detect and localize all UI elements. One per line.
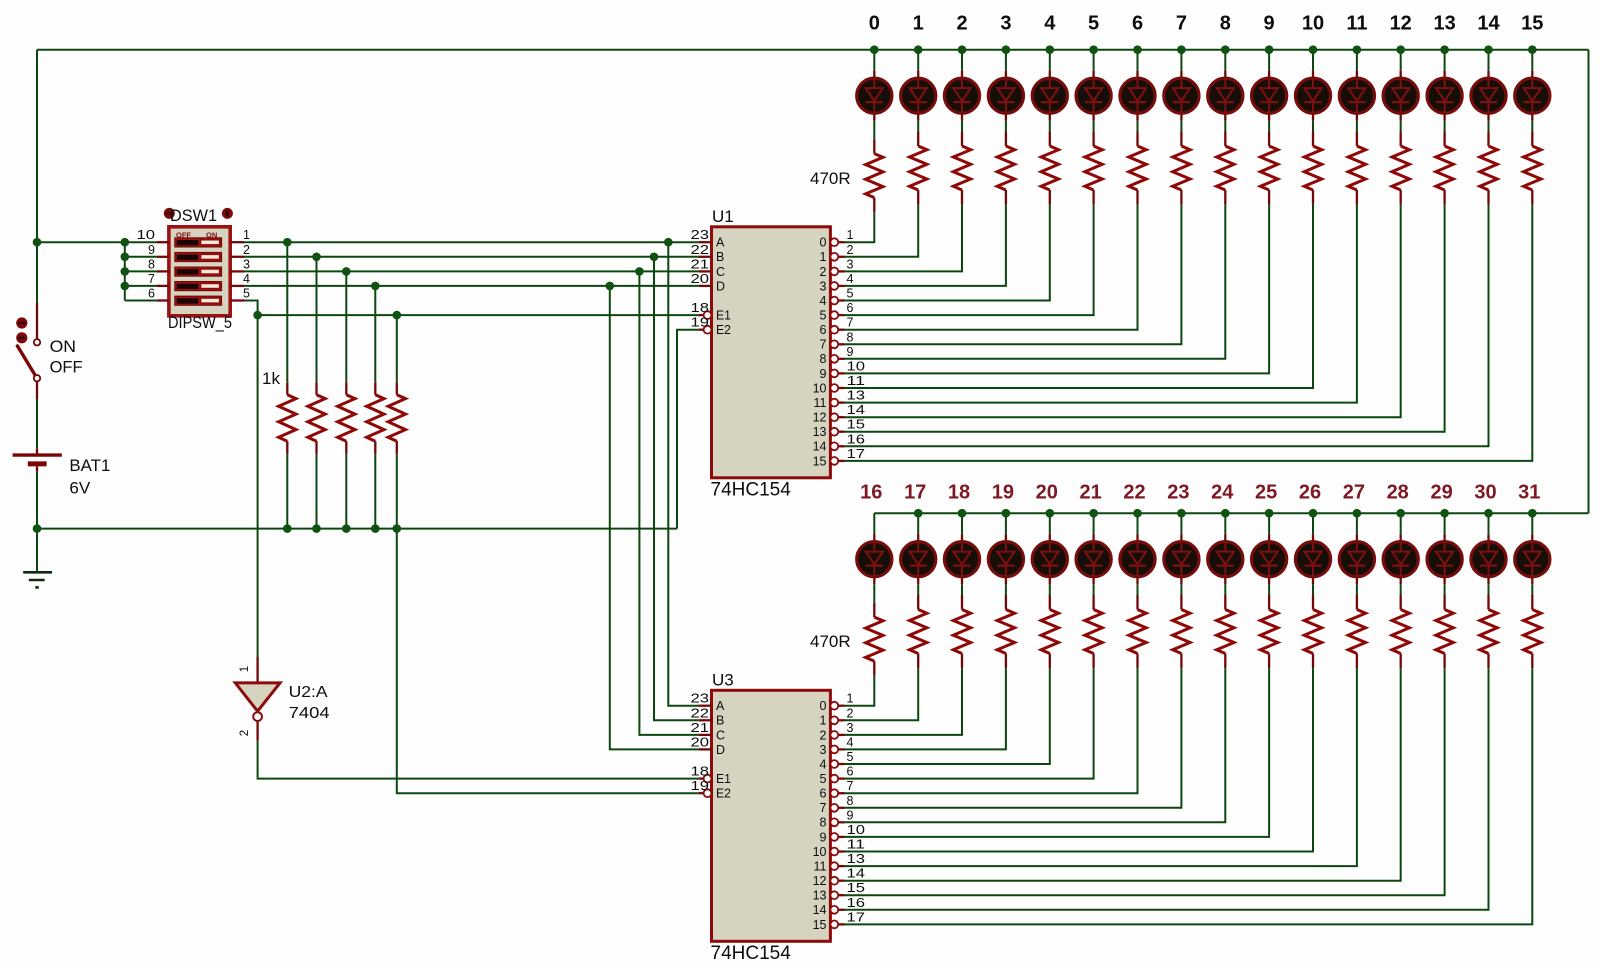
svg-text:17: 17	[904, 482, 926, 504]
junction dot rail/ground bus	[33, 524, 42, 533]
LED D18 (index 17)	[917, 534, 919, 541]
wire	[845, 205, 1094, 316]
resistor 470R (LED 12)	[1400, 132, 1402, 147]
svg-text:15: 15	[847, 881, 866, 895]
wire	[1400, 50, 1402, 71]
wire	[845, 205, 1182, 345]
resistor 470R (LED 18)	[961, 595, 963, 610]
svg-text:12: 12	[1390, 13, 1412, 35]
DSW1 marker circle right	[222, 208, 233, 219]
wire net C to U3	[639, 271, 698, 735]
svg-text:15: 15	[1521, 13, 1543, 35]
svg-text:3: 3	[847, 721, 854, 735]
wire	[845, 668, 963, 735]
DIP switch element 1	[175, 238, 222, 247]
wire	[845, 205, 1270, 374]
wire	[917, 50, 919, 71]
LED D21 (index 20)	[1049, 534, 1051, 541]
svg-text:A: A	[716, 699, 725, 713]
LED D4 (index 3)	[1005, 71, 1007, 78]
resistor 470R (LED 11)	[1356, 132, 1358, 147]
svg-text:3: 3	[243, 257, 250, 271]
svg-text:16: 16	[847, 896, 866, 910]
svg-text:2: 2	[847, 243, 854, 257]
svg-text:8: 8	[847, 330, 854, 344]
svg-text:14: 14	[847, 867, 866, 881]
resistor 470R (LED 24)	[1224, 595, 1226, 610]
svg-text:0: 0	[869, 13, 880, 35]
svg-text:5: 5	[1088, 13, 1099, 35]
wire	[961, 584, 963, 595]
svg-text:9: 9	[1264, 13, 1275, 35]
U1 output pin 4	[830, 297, 838, 305]
junction dots second bus	[914, 509, 923, 518]
wire	[1137, 513, 1139, 534]
wire	[845, 205, 1489, 447]
switch SW ON/OFF pin top	[36, 303, 38, 339]
svg-text:14: 14	[847, 403, 866, 417]
U1 input pin D	[699, 285, 712, 287]
svg-text:0: 0	[820, 236, 827, 250]
wire pulldown resistor 3 to ground bus	[345, 454, 347, 529]
wire	[845, 668, 1138, 793]
svg-text:19: 19	[691, 779, 710, 793]
svg-text:13: 13	[1433, 13, 1455, 35]
resistor 470R (LED 22)	[1136, 595, 1138, 610]
LED D13 (index 12)	[1400, 71, 1402, 78]
svg-text:U1: U1	[712, 207, 734, 226]
svg-text:0: 0	[820, 699, 827, 713]
svg-text:15: 15	[813, 454, 827, 468]
wire row 4 to pulldown resistor	[374, 286, 376, 382]
LED D22 (index 21)	[1092, 534, 1094, 541]
wire	[1400, 584, 1402, 595]
svg-text:2: 2	[820, 728, 827, 742]
wire	[1093, 584, 1095, 595]
svg-text:30: 30	[1474, 482, 1496, 504]
LED D30 (index 29)	[1443, 534, 1445, 541]
svg-text:D: D	[716, 743, 725, 757]
svg-text:22: 22	[691, 706, 710, 720]
svg-text:C: C	[716, 265, 725, 279]
wire	[1224, 513, 1226, 534]
U3 output pin 12	[830, 877, 838, 885]
wire to DIP pin 10	[125, 241, 157, 243]
LED D8 (index 7)	[1180, 71, 1182, 78]
resistor 470R (LED 29)	[1443, 595, 1445, 610]
LED D26 (index 25)	[1268, 534, 1270, 541]
wire	[1137, 121, 1139, 132]
wire	[845, 668, 1533, 924]
wire	[1531, 584, 1533, 595]
U3 output pin 6	[830, 789, 838, 797]
wire VCC top bus	[37, 49, 1589, 51]
svg-text:8: 8	[820, 352, 827, 366]
svg-text:E1: E1	[716, 772, 731, 786]
wire E net to U2 input	[257, 315, 259, 657]
svg-text:14: 14	[813, 903, 827, 917]
svg-text:11: 11	[847, 374, 866, 388]
svg-text:D: D	[716, 279, 725, 293]
svg-text:3: 3	[847, 257, 854, 271]
ground symbol	[23, 571, 52, 574]
U3 output pin 3	[830, 746, 838, 754]
resistor 470R (LED 23)	[1180, 595, 1182, 610]
svg-text:18: 18	[691, 765, 710, 779]
wire	[845, 668, 1094, 779]
svg-text:3: 3	[1000, 13, 1011, 35]
switch contact bottom	[34, 375, 40, 381]
pulldown resistors 1k R1-R5	[286, 382, 288, 394]
U3 output pin 15	[830, 921, 838, 929]
wire row 2 to pulldown resistor	[316, 257, 318, 383]
svg-text:6V: 6V	[69, 479, 90, 498]
wire	[1005, 584, 1007, 595]
resistor 470R (LED 26)	[1312, 595, 1314, 610]
wire net DIP pin 1 row	[244, 241, 699, 243]
svg-text:13: 13	[847, 852, 866, 866]
U1 enable pin E2	[699, 329, 704, 331]
wire	[845, 668, 1006, 749]
wire	[1005, 50, 1007, 71]
junction dots top bus	[870, 45, 879, 54]
svg-text:2: 2	[847, 706, 854, 720]
U3 output pin 0	[830, 702, 838, 710]
wire DIP pin 5 to E net corner	[244, 301, 258, 316]
switch pin bottom	[36, 381, 38, 399]
svg-text:31: 31	[1518, 482, 1540, 504]
DIP switch element 2	[175, 252, 222, 261]
wire to DIP pin 7	[125, 285, 157, 287]
svg-text:1: 1	[847, 228, 854, 242]
U1 output pin 11	[830, 399, 838, 407]
svg-text:1: 1	[239, 666, 251, 672]
inverter U2:A body	[235, 683, 280, 711]
svg-text:9: 9	[847, 345, 854, 359]
U3 output pin 4	[830, 760, 838, 768]
battery BAT1 plate long	[13, 453, 62, 456]
resistor 470R (LED 3)	[1005, 132, 1007, 147]
wire	[873, 584, 875, 603]
LED D14 (index 13)	[1443, 71, 1445, 78]
wire	[1312, 50, 1314, 71]
wire	[1444, 513, 1446, 534]
svg-text:12: 12	[813, 874, 827, 888]
U3 output pin 11	[830, 862, 838, 870]
wire	[873, 50, 875, 71]
svg-text:2: 2	[239, 730, 251, 736]
svg-text:1: 1	[820, 714, 827, 728]
resistor 470R (LED 27)	[1356, 595, 1358, 610]
svg-text:3: 3	[820, 279, 827, 293]
wire	[1312, 121, 1314, 132]
svg-text:5: 5	[820, 772, 827, 786]
svg-text:7: 7	[820, 801, 827, 815]
LED D7 (index 6)	[1136, 71, 1138, 78]
svg-text:13: 13	[813, 425, 827, 439]
resistor 470R (LED 5)	[1092, 132, 1094, 147]
svg-text:11: 11	[814, 396, 827, 410]
svg-text:B: B	[716, 250, 724, 264]
wire	[961, 121, 963, 132]
IC U1 body 74HC154	[712, 227, 831, 478]
wire	[1268, 584, 1270, 595]
wire pulldown 5 / ground to U3 E2	[397, 454, 699, 793]
svg-text:5: 5	[243, 287, 250, 301]
U3 enable pin E1	[699, 777, 704, 779]
svg-text:U2:A: U2:A	[289, 684, 328, 701]
wire	[845, 205, 1226, 359]
wire	[845, 668, 1357, 866]
svg-text:3: 3	[820, 743, 827, 757]
LED D27 (index 26)	[1312, 534, 1314, 541]
svg-text:14: 14	[1477, 13, 1500, 35]
svg-text:1: 1	[913, 13, 924, 35]
resistor 470R (LED 8)	[1224, 132, 1226, 147]
wire	[1444, 121, 1446, 132]
wire row 1 to pulldown resistor	[286, 242, 288, 382]
svg-text:6: 6	[847, 765, 854, 779]
U3 output pin 5	[830, 775, 838, 783]
svg-text:1k: 1k	[262, 369, 280, 388]
DIP switch DSW1 body	[169, 227, 230, 316]
wire	[1180, 121, 1182, 132]
U3 input pin D	[699, 748, 712, 750]
svg-text:5: 5	[820, 309, 827, 323]
wire	[845, 205, 1445, 432]
U1 input pin B	[699, 256, 712, 258]
wire net DIP pin 2 row	[244, 256, 699, 258]
resistor 470R (LED 2)	[961, 132, 963, 147]
svg-text:5: 5	[847, 750, 854, 764]
wire net DIP pin 3 row	[244, 270, 699, 272]
svg-text:9: 9	[847, 808, 854, 822]
svg-text:21: 21	[691, 257, 710, 271]
svg-text:4: 4	[820, 757, 827, 771]
wire	[1093, 121, 1095, 132]
wire U1 E2 to ground vertical	[677, 330, 699, 529]
wire ground bus	[37, 528, 677, 530]
wire	[845, 668, 1182, 808]
svg-text:E2: E2	[716, 323, 731, 337]
svg-text:7: 7	[847, 316, 854, 330]
svg-text:16: 16	[860, 482, 882, 504]
LED D25 (index 24)	[1224, 534, 1226, 541]
wire	[1356, 121, 1358, 132]
svg-text:1: 1	[847, 692, 854, 706]
LED D2 (index 1)	[917, 71, 919, 78]
U3 output pin 7	[830, 804, 838, 812]
U3 output pin 2	[830, 731, 838, 739]
svg-text:4: 4	[847, 735, 854, 749]
U3 input pin A	[699, 705, 712, 707]
wire	[1400, 121, 1402, 132]
wire net B to U3	[654, 257, 699, 721]
U3 input pin B	[699, 719, 712, 721]
resistor 470R (LED 10)	[1312, 132, 1314, 147]
svg-text:13: 13	[847, 389, 866, 403]
resistor 470R (LED 13)	[1443, 132, 1445, 147]
U1 output pin 13	[830, 428, 838, 436]
wire	[845, 205, 1357, 403]
wire	[1488, 513, 1490, 534]
wire DIP left feed vertical	[124, 242, 126, 300]
svg-text:20: 20	[691, 735, 710, 749]
svg-text:15: 15	[847, 418, 866, 432]
wire	[1049, 121, 1051, 132]
svg-text:2: 2	[243, 243, 250, 257]
U1 output pin 9	[830, 370, 838, 378]
resistor 470R (LED 4)	[1049, 132, 1051, 147]
resistor 470R (LED 9)	[1268, 132, 1270, 147]
wire battery negative	[36, 472, 38, 529]
svg-text:6: 6	[1132, 13, 1143, 35]
wire VCC second-row bus	[874, 512, 1588, 514]
svg-text:10: 10	[847, 359, 866, 373]
svg-text:8: 8	[847, 794, 854, 808]
wire	[1093, 513, 1095, 534]
U1 enable pin E1	[699, 314, 704, 316]
U1 output pin 5	[830, 311, 838, 319]
wire	[845, 676, 875, 706]
wire	[1312, 513, 1314, 534]
wire	[845, 668, 1314, 851]
svg-text:11: 11	[1346, 13, 1367, 35]
svg-text:10: 10	[847, 823, 866, 837]
IC U3 body 74HC154	[712, 690, 831, 941]
svg-text:10: 10	[137, 228, 156, 242]
wire	[1005, 121, 1007, 132]
junction dots ground bus	[283, 524, 292, 533]
wire	[873, 513, 875, 534]
U3 input pin C	[699, 734, 712, 736]
svg-text:18: 18	[691, 301, 710, 315]
U3 output pin 13	[830, 891, 838, 899]
svg-text:20: 20	[691, 272, 710, 286]
svg-text:14: 14	[813, 440, 827, 454]
wire	[1005, 513, 1007, 534]
wire	[1531, 513, 1533, 534]
wire	[845, 668, 1270, 837]
wire pulldown resistor 1 to ground bus	[286, 454, 288, 529]
LED D10 (index 9)	[1268, 71, 1270, 78]
svg-text:C: C	[716, 728, 725, 742]
svg-text:1: 1	[820, 250, 827, 264]
wire	[917, 584, 919, 595]
wire	[1488, 584, 1490, 595]
svg-text:470R: 470R	[810, 169, 851, 188]
wire net D to U3	[610, 286, 699, 750]
wire	[1356, 513, 1358, 534]
LED D3 (index 2)	[961, 71, 963, 78]
wire	[1049, 513, 1051, 534]
wire	[1224, 584, 1226, 595]
resistor 470R (LED 31)	[1531, 595, 1533, 610]
svg-text:21: 21	[1079, 482, 1101, 504]
battery BAT1 pin top	[36, 448, 38, 453]
wire	[1137, 584, 1139, 595]
wire	[1180, 513, 1182, 534]
wire ground stem	[36, 529, 38, 572]
resistor 470R (LED 7)	[1180, 132, 1182, 147]
wire E1 net to pulldown resistor 5	[396, 315, 398, 382]
U3 output pin 1	[830, 716, 838, 724]
svg-text:23: 23	[1167, 482, 1189, 504]
resistor 470R (LED 15)	[1531, 132, 1533, 147]
wire rail to DIP pin 10	[37, 241, 125, 243]
svg-text:17: 17	[847, 910, 866, 924]
svg-text:4: 4	[847, 272, 854, 286]
resistor 470R (LED 17)	[917, 595, 919, 610]
resistor 470R (LED 30)	[1487, 595, 1489, 610]
wire	[1180, 50, 1182, 71]
wire	[961, 513, 963, 534]
wire	[961, 50, 963, 71]
svg-text:E2: E2	[716, 787, 731, 801]
switch actuator marker bottom	[16, 332, 27, 343]
wire	[1224, 50, 1226, 71]
wire	[845, 205, 1314, 388]
svg-text:OFF: OFF	[50, 358, 83, 377]
LED D16 (index 15)	[1531, 71, 1533, 78]
svg-text:18: 18	[948, 482, 970, 504]
wire	[1531, 121, 1533, 132]
svg-text:7404: 7404	[289, 705, 330, 722]
LED D15 (index 14)	[1487, 71, 1489, 78]
U1 output pin 7	[830, 340, 838, 348]
LED D23 (index 22)	[1136, 534, 1138, 541]
svg-text:11: 11	[847, 838, 866, 852]
wire row 3 to pulldown resistor	[345, 271, 347, 382]
svg-text:23: 23	[691, 692, 710, 706]
svg-text:12: 12	[813, 411, 827, 425]
wire	[1356, 584, 1358, 595]
U1 input pin C	[699, 270, 712, 272]
svg-text:19: 19	[691, 316, 710, 330]
svg-text:6: 6	[820, 787, 827, 801]
svg-text:20: 20	[1036, 482, 1058, 504]
LED D20 (index 19)	[1005, 534, 1007, 541]
LED D1 (index 0)	[873, 71, 875, 78]
svg-text:7: 7	[1176, 13, 1187, 35]
LED D11 (index 10)	[1312, 71, 1314, 78]
svg-text:19: 19	[992, 482, 1014, 504]
resistor 470R (LED 14)	[1487, 132, 1489, 147]
svg-text:74HC154: 74HC154	[711, 943, 792, 964]
svg-text:6: 6	[847, 301, 854, 315]
svg-text:6: 6	[820, 323, 827, 337]
LED D32 (index 31)	[1531, 534, 1533, 541]
resistor 470R (LED 0)	[873, 139, 875, 153]
resistor 470R (LED 1)	[917, 132, 919, 147]
svg-text:22: 22	[691, 243, 710, 257]
wire	[845, 205, 1533, 461]
DSW1 marker circle left	[164, 208, 175, 219]
wire	[1444, 584, 1446, 595]
wire	[917, 513, 919, 534]
LED D29 (index 28)	[1400, 534, 1402, 541]
wire pulldown resistor 2 to ground bus	[316, 454, 318, 529]
switch contact top	[34, 339, 40, 345]
U1 output pin 2	[830, 268, 838, 276]
DIP switch element 3	[175, 267, 222, 276]
U1 output pin 3	[830, 282, 838, 290]
junction dot rail/DIP row	[33, 238, 42, 247]
U1 output pin 8	[830, 355, 838, 363]
wire pulldown resistor 4 to ground bus	[374, 454, 376, 529]
svg-text:7: 7	[148, 272, 155, 286]
DIP switch element 4	[175, 282, 222, 291]
